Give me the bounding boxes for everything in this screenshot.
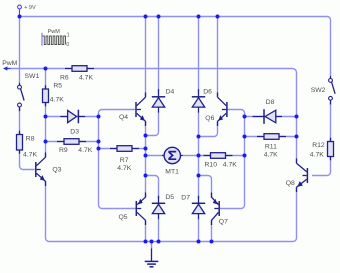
wire Q7 collector down xyxy=(211,220,213,242)
svg-text:R11: R11 xyxy=(265,143,277,150)
junction PwM line / R5 xyxy=(44,67,48,71)
junction top rail / Q6 collector xyxy=(216,15,220,19)
junction bottom rail / ground xyxy=(150,240,154,244)
wire R8 to Q3 base xyxy=(20,150,35,170)
junction Q6-Q7 base column / D8 xyxy=(243,115,247,119)
svg-text:PwM: PwM xyxy=(2,60,17,67)
wire SW1 to R8 xyxy=(19,107,21,135)
svg-text:R7: R7 xyxy=(120,157,129,164)
wire motor left xyxy=(146,155,162,157)
wire D5 to bottom rail xyxy=(158,219,160,242)
svg-text:R8: R8 xyxy=(26,136,35,143)
diode D7 xyxy=(198,196,200,219)
svg-text:4.7K: 4.7K xyxy=(50,96,64,103)
svg-text:D6: D6 xyxy=(203,89,212,96)
junction Q8 column / D8 xyxy=(295,115,299,119)
wire left rail mid xyxy=(145,136,147,198)
wire D8 row xyxy=(245,116,297,118)
svg-text:D4: D4 xyxy=(166,89,175,96)
svg-text:4.7K: 4.7K xyxy=(264,152,278,159)
resistor R5 xyxy=(45,85,47,106)
wire SW2 to R12 xyxy=(330,103,332,142)
transistor Q4 (NPN) xyxy=(137,109,141,111)
wire bottom emitter rail xyxy=(46,181,294,242)
junction left rail / D5 branch xyxy=(144,174,148,178)
svg-text:1: 1 xyxy=(67,32,70,38)
junction right rail / Q7 emitter branch xyxy=(197,174,201,178)
svg-text:Q8: Q8 xyxy=(286,180,295,187)
junction R5 column / R9 xyxy=(44,140,48,144)
resistor R11 xyxy=(257,136,286,138)
junction Q6-Q7 base column / R11 xyxy=(243,135,247,139)
svg-text:Q3: Q3 xyxy=(52,167,61,174)
wire Q7 emitter branch xyxy=(199,176,212,199)
transistor Q7 (PNP, mirrored) xyxy=(214,208,218,210)
wire Q4/Q5 base column xyxy=(99,110,136,117)
ground xyxy=(151,242,153,250)
svg-text:4.7K: 4.7K xyxy=(117,165,131,172)
svg-text:D7: D7 xyxy=(181,194,190,201)
svg-text:0: 0 xyxy=(66,42,69,48)
node PwM input xyxy=(7,68,11,70)
svg-text:R9: R9 xyxy=(59,147,68,154)
svg-text:R12: R12 xyxy=(312,142,325,149)
svg-text:4.7K: 4.7K xyxy=(79,74,93,81)
junction left rail / motor left xyxy=(144,154,148,158)
wire R10 row xyxy=(199,155,245,157)
junction R5 column / D3 xyxy=(44,115,48,119)
wire D3 row xyxy=(46,116,99,118)
junction bottom rail / D7 xyxy=(197,240,201,244)
junction top rail / D6 xyxy=(197,15,201,19)
wire R7 row xyxy=(99,148,146,150)
diode D6 xyxy=(198,89,200,112)
wire Q8 base to R12 xyxy=(312,157,331,176)
diode D4 xyxy=(158,89,160,112)
wire Q8 emitter to bottom rail xyxy=(293,187,297,242)
junction Q8 column / R11 xyxy=(295,135,299,139)
svg-text:Q7: Q7 xyxy=(219,219,228,226)
wire Q6 base to column xyxy=(227,110,244,117)
motor MT1 xyxy=(162,155,183,157)
svg-text:+ 9V: + 9V xyxy=(24,5,36,11)
resistor R12 xyxy=(330,138,332,160)
junction Q4-Q5 base column / D3 xyxy=(97,115,101,119)
junction bottom rail / Q5 collector xyxy=(144,240,148,244)
svg-text:D8: D8 xyxy=(266,99,275,106)
svg-text:D3: D3 xyxy=(70,128,79,135)
diode D8 xyxy=(253,116,283,118)
resistor R10 xyxy=(204,155,233,157)
svg-text:MT1: MT1 xyxy=(165,168,179,175)
wire Q5 collector down xyxy=(145,221,147,242)
svg-text:4.7K: 4.7K xyxy=(310,152,324,159)
svg-text:4.7K: 4.7K xyxy=(78,147,92,154)
diode D5 xyxy=(158,196,160,219)
wire D7 to bottom rail xyxy=(198,219,200,242)
wire Q6 emitter to right rail xyxy=(199,121,218,137)
wire +9V down to SW1 xyxy=(19,17,21,84)
wire Q4 collector up xyxy=(145,17,147,97)
wire right rail mid xyxy=(198,113,200,199)
svg-text:R5: R5 xyxy=(53,83,62,90)
switch SW1 xyxy=(19,83,21,85)
wire Q6 collector up xyxy=(217,17,219,97)
junction +9V terminal / top rail xyxy=(18,15,22,19)
svg-text:4.7K: 4.7K xyxy=(223,162,237,169)
svg-text:R6: R6 xyxy=(60,74,69,81)
wire R9 row xyxy=(46,141,99,143)
terminal +9V xyxy=(19,9,21,16)
wire R11 row xyxy=(245,136,297,138)
transistor Q8 (NPN, mirrored) xyxy=(303,175,307,177)
transistor Q6 (NPN, mirrored) xyxy=(222,109,226,111)
junction right rail / motor right / R10 xyxy=(197,154,201,158)
svg-text:SW2: SW2 xyxy=(311,87,326,94)
wire D5 branch xyxy=(146,176,159,199)
resistor R6 xyxy=(65,68,94,70)
transistor Q3 (NPN) xyxy=(37,169,41,171)
svg-text:D5: D5 xyxy=(165,194,174,201)
junction Q4-Q5 base column / R9 xyxy=(97,140,101,144)
wire Q6/Q7 base column xyxy=(220,117,245,209)
diode D3 xyxy=(60,116,85,118)
PwM waveform icon xyxy=(41,33,43,46)
switch SW2 xyxy=(330,76,332,78)
wire R5 / Q3 collector column xyxy=(45,69,47,158)
svg-text:Q6: Q6 xyxy=(205,115,214,122)
svg-text:PwM: PwM xyxy=(48,29,61,35)
svg-text:R10: R10 xyxy=(205,162,218,169)
wire Q4 emitter down xyxy=(145,121,147,136)
junction left rail / D4 return xyxy=(144,134,148,138)
junction bottom rail / D5 xyxy=(157,240,161,244)
wire D4 bottom to rail xyxy=(146,113,159,136)
junction right rail / Q6 emitter xyxy=(197,135,201,139)
svg-text:4.7K: 4.7K xyxy=(23,151,37,158)
junction top rail / Q4 collector xyxy=(144,15,148,19)
wire D6 column upper xyxy=(198,17,200,92)
resistor R8 xyxy=(19,131,21,154)
wire D4 column upper xyxy=(158,17,160,92)
junction top rail / D4 xyxy=(157,15,161,19)
junction Q6-Q7 base column / R10 xyxy=(243,154,247,158)
wire motor right xyxy=(183,155,199,157)
transistor Q5 (PNP) xyxy=(137,208,141,210)
resistor R7 xyxy=(110,148,139,150)
junction Q4-Q5 base column / R7 xyxy=(97,147,101,151)
junction left rail / R7 xyxy=(144,147,148,151)
svg-text:Q4: Q4 xyxy=(119,114,128,121)
wire +9V top rail xyxy=(20,17,331,77)
resistor R9 xyxy=(57,141,86,143)
svg-text:SW1: SW1 xyxy=(25,73,40,80)
svg-text:Q5: Q5 xyxy=(119,214,128,221)
wire PwM line (through R6) to right column xyxy=(7,69,297,164)
junction bottom rail / Q7 collector xyxy=(210,240,214,244)
